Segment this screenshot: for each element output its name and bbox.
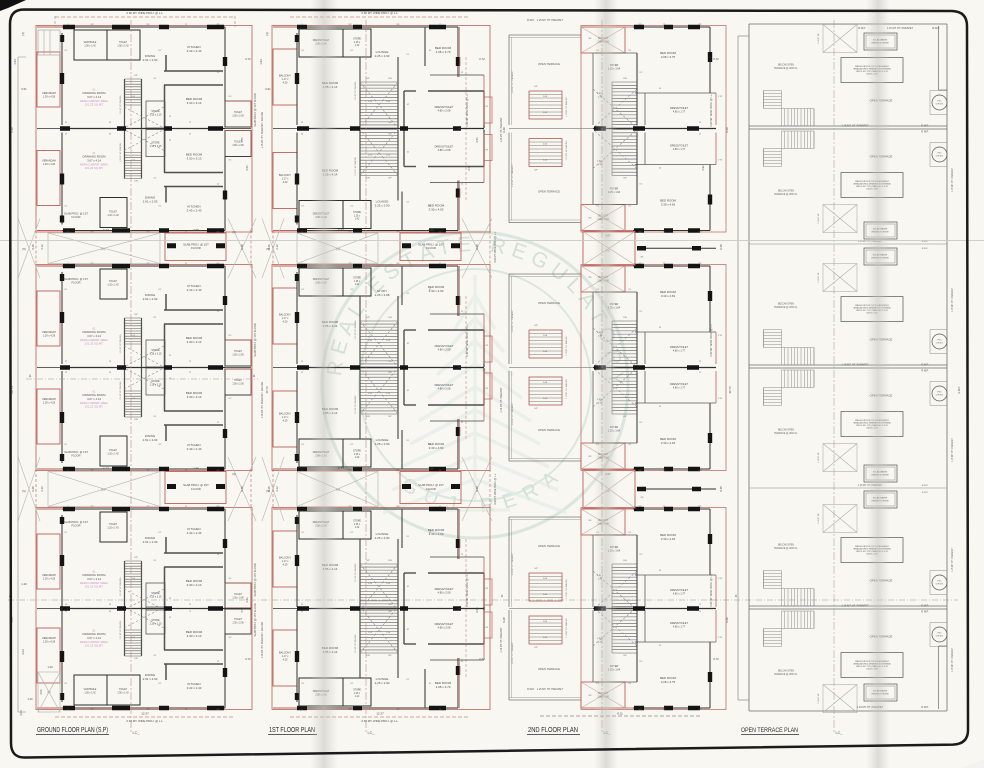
col2 stairs bbox=[360, 81, 398, 83]
svg-text:1.25 x: 1.25 x bbox=[354, 454, 361, 456]
col1 bed room bbox=[164, 323, 223, 325]
col2 unit outer wall bbox=[297, 468, 458, 470]
svg-text:0.72: 0.72 bbox=[245, 57, 251, 61]
svg-text:1.15 MT. HT. RAILING: 1.15 MT. HT. RAILING bbox=[119, 381, 122, 400]
svg-text:DRESS/TOILET: DRESS/TOILET bbox=[435, 622, 454, 626]
svg-text:3.55: 3.55 bbox=[193, 228, 199, 232]
svg-text:9.48: 9.48 bbox=[719, 244, 723, 250]
svg-text:3.30 x 4.63: 3.30 x 4.63 bbox=[429, 208, 444, 212]
col2 dress toilet box bbox=[299, 439, 343, 467]
svg-text:DN: DN bbox=[366, 655, 370, 657]
svg-text:DRESS/TOILET: DRESS/TOILET bbox=[435, 383, 454, 387]
svg-text:OPEN TERRACE: OPEN TERRACE bbox=[538, 428, 560, 432]
col1 right wall bbox=[224, 27, 226, 101]
col1 bottom-left crossed area bbox=[38, 672, 60, 712]
svg-text:OPEN TERRACE: OPEN TERRACE bbox=[538, 544, 560, 548]
svg-text:9.48: 9.48 bbox=[240, 486, 244, 492]
svg-text:5.26: 5.26 bbox=[31, 486, 35, 492]
svg-text:1.15 MT. HT. RAILING: 1.15 MT. HT. RAILING bbox=[354, 320, 357, 339]
svg-text:UP: UP bbox=[134, 75, 138, 77]
svg-text:GROUND FLOOR PLAN (S.P): GROUND FLOOR PLAN (S.P) bbox=[37, 725, 108, 734]
svg-text:DN: DN bbox=[134, 658, 138, 660]
col1 section line A bbox=[26, 378, 258, 380]
svg-text:TERRACE @ 2ND FL.: TERRACE @ 2ND FL. bbox=[774, 673, 798, 676]
svg-text:UP: UP bbox=[366, 560, 370, 562]
svg-text:R.W.P.: R.W.P. bbox=[958, 386, 961, 393]
svg-text:1.29 x 4.26: 1.29 x 4.26 bbox=[43, 578, 56, 581]
svg-text:101.22 SQ.MT.: 101.22 SQ.MT. bbox=[85, 103, 104, 107]
svg-text:9.48: 9.48 bbox=[725, 617, 729, 623]
svg-text:3.30 x 3.13: 3.30 x 3.13 bbox=[187, 101, 202, 105]
svg-text:3.30 x 3.13: 3.30 x 3.13 bbox=[187, 157, 202, 161]
svg-text:4.80 x 2.08: 4.80 x 2.08 bbox=[438, 387, 451, 391]
svg-text:DN: DN bbox=[366, 416, 370, 418]
svg-text:OPEN TERRACE: OPEN TERRACE bbox=[538, 301, 560, 305]
svg-text:(1): (1) bbox=[101, 247, 105, 251]
col3 small stairs left bbox=[529, 376, 562, 378]
col3 core left wall bbox=[636, 371, 638, 443]
col1 verandah bbox=[37, 52, 60, 107]
col1 stairs bbox=[125, 560, 142, 562]
svg-text:V W: V W bbox=[484, 150, 488, 152]
col1 top-left planter bbox=[38, 30, 60, 55]
svg-text:LC_: LC_ bbox=[368, 731, 376, 735]
svg-text:V W: V W bbox=[484, 345, 488, 347]
svg-text:2.25 x 2.90: 2.25 x 2.90 bbox=[375, 681, 390, 685]
svg-text:TERRACE @ 2ND FL.: TERRACE @ 2ND FL. bbox=[774, 193, 798, 196]
svg-text:SLAB PROJ. @ 1ST FLOOR: SLAB PROJ. @ 1ST FLOOR bbox=[253, 323, 257, 357]
svg-text:6.72: 6.72 bbox=[338, 467, 344, 471]
col1 slab proj red box bbox=[165, 233, 226, 261]
svg-text:STORE: STORE bbox=[353, 690, 361, 692]
svg-text:4.08 x 3.75: 4.08 x 3.75 bbox=[661, 55, 676, 59]
svg-text:4.20: 4.20 bbox=[283, 181, 288, 184]
col2 party wall bbox=[297, 608, 484, 610]
svg-text:TOILET: TOILET bbox=[109, 281, 118, 283]
margin cross right col2 bbox=[462, 457, 492, 521]
col1 store bbox=[146, 368, 165, 395]
col3 module boundary bbox=[581, 265, 726, 471]
svg-text:1.15 MT. HT. RAILING: 1.15 MT. HT. RAILING bbox=[354, 81, 357, 100]
svg-text:1.15 MT. HT. RAILING: 1.15 MT. HT. RAILING bbox=[119, 620, 122, 639]
svg-text:DN: DN bbox=[388, 317, 392, 319]
svg-text:STORE: STORE bbox=[353, 212, 361, 214]
col2 bottom dims bbox=[290, 716, 470, 718]
svg-text:R.W.P.: R.W.P. bbox=[921, 364, 928, 367]
col1 kitchen partition bbox=[165, 425, 167, 441]
watermark RERA stamp bbox=[0, 0, 628, 538]
svg-text:1.42: 1.42 bbox=[355, 219, 360, 221]
svg-text:3.51: 3.51 bbox=[240, 137, 244, 143]
svg-text:3.51: 3.51 bbox=[475, 137, 479, 143]
svg-text:1.25 x 2.15: 1.25 x 2.15 bbox=[150, 145, 162, 148]
col1 verandah bbox=[37, 628, 60, 683]
col1 toilet ext bbox=[225, 608, 251, 634]
col2 unit outer wall bbox=[297, 707, 458, 709]
svg-text:0.72: 0.72 bbox=[713, 57, 719, 61]
svg-text:TOILET: TOILET bbox=[109, 212, 118, 214]
col3 top wall right bbox=[633, 707, 710, 709]
svg-text:2.61 x 2.93: 2.61 x 2.93 bbox=[143, 438, 158, 442]
col2 dress toilet right bbox=[404, 572, 416, 574]
svg-text:30.73: 30.73 bbox=[265, 386, 269, 393]
col2 proj dashed vertical bbox=[465, 57, 467, 201]
col3 top wall right bbox=[633, 230, 710, 232]
col4 parapet line bbox=[749, 364, 947, 366]
svg-text:UP: UP bbox=[534, 408, 538, 410]
col1 store bbox=[146, 130, 165, 157]
svg-text:W: W bbox=[109, 134, 111, 136]
svg-text:4.80 x 2.08: 4.80 x 2.08 bbox=[438, 148, 451, 152]
svg-text:V W: V W bbox=[718, 96, 722, 98]
svg-text:FLOOR: FLOOR bbox=[191, 246, 201, 250]
col2 stairs bbox=[360, 606, 398, 608]
svg-text:4.20: 4.20 bbox=[283, 419, 288, 422]
svg-text:FLOOR: FLOOR bbox=[426, 246, 436, 250]
svg-text:DN: DN bbox=[388, 78, 392, 80]
col2 dress toilet right bbox=[404, 166, 416, 168]
col1 kitchen partition bbox=[165, 55, 167, 71]
col2 bed room right bbox=[401, 266, 403, 305]
svg-text:O.H.W.T.: O.H.W.T. bbox=[936, 156, 944, 158]
svg-text:(5): (5) bbox=[22, 247, 25, 251]
svg-text:0.72: 0.72 bbox=[245, 657, 251, 661]
svg-text:0.72: 0.72 bbox=[713, 657, 719, 661]
col3 small stairs left bbox=[529, 138, 562, 140]
col2 balcony bbox=[273, 391, 297, 447]
col2 module red boundary bbox=[272, 508, 490, 710]
col4 outer boundary bbox=[748, 24, 750, 711]
svg-text:TERRACE @ 2ND FL.: TERRACE @ 2ND FL. bbox=[774, 306, 798, 309]
col3 core left wall bbox=[636, 133, 638, 205]
col2 party wall bbox=[297, 128, 484, 130]
col3 gap bedroom wall bbox=[637, 247, 716, 249]
svg-text:3.51: 3.51 bbox=[245, 165, 249, 171]
col4 center line bbox=[833, 20, 835, 733]
svg-text:PVC: PVC bbox=[938, 153, 943, 155]
col2 dress toilet right bbox=[404, 329, 416, 331]
col1 right wall bbox=[224, 157, 226, 231]
svg-text:4.80 x 1.77: 4.80 x 1.77 bbox=[673, 626, 686, 629]
col3 module boundary bbox=[581, 508, 726, 710]
col4 crossed boxes bbox=[823, 264, 857, 292]
col2 dress toilet box bbox=[299, 29, 343, 57]
col2 bed room right bbox=[401, 192, 403, 231]
col3 party wall bbox=[593, 128, 716, 130]
col4 right boundary steps bbox=[938, 26, 940, 90]
col3 foyer bbox=[595, 681, 637, 683]
svg-text:W: W bbox=[109, 611, 111, 613]
col2 dress toilet right bbox=[404, 404, 416, 406]
col3 cut-out box bbox=[581, 443, 625, 469]
svg-text:OPEN TERRACE: OPEN TERRACE bbox=[538, 667, 560, 671]
col1 party wall bbox=[62, 367, 225, 369]
col4 solar water heater boxes bbox=[864, 33, 897, 50]
svg-text:FLOOR: FLOOR bbox=[72, 215, 81, 219]
svg-text:UP: UP bbox=[534, 325, 538, 327]
svg-text:1.15 MT. HT. PARAPET: 1.15 MT. HT. PARAPET bbox=[951, 287, 954, 312]
col2 dress toilet right bbox=[404, 90, 416, 92]
red boundary continuation bbox=[35, 469, 37, 509]
col2 right wall bbox=[457, 658, 459, 708]
col1 verandah bbox=[37, 151, 60, 206]
svg-text:1.50 x 1.42: 1.50 x 1.42 bbox=[84, 45, 96, 47]
svg-text:1.15 MT. HT. RAILING: 1.15 MT. HT. RAILING bbox=[354, 634, 357, 653]
svg-text:PVC: PVC bbox=[938, 101, 943, 103]
svg-text:UP: UP bbox=[534, 86, 538, 88]
svg-text:DN: DN bbox=[134, 181, 138, 183]
svg-text:1.50 x 2.00: 1.50 x 2.00 bbox=[232, 115, 244, 117]
svg-text:1.15 MT. HT.: 1.15 MT. HT. bbox=[818, 693, 820, 704]
margin cross right bbox=[228, 457, 256, 521]
svg-text:UP: UP bbox=[388, 416, 392, 418]
col3 open terrace outline bbox=[508, 610, 510, 700]
col4 stairs bbox=[764, 329, 782, 331]
col1 toilet ext bbox=[225, 131, 251, 157]
svg-text:R.W.P.: R.W.P. bbox=[922, 241, 929, 243]
svg-text:4.08 x 3.79: 4.08 x 3.79 bbox=[436, 685, 451, 689]
svg-text:UP: UP bbox=[134, 557, 138, 559]
col1 store bbox=[146, 101, 165, 128]
section line A lower full width bbox=[8, 599, 958, 601]
svg-text:1.15 MT. HT. PARAPET: 1.15 MT. HT. PARAPET bbox=[951, 547, 954, 572]
col2 right wall bbox=[457, 266, 459, 316]
svg-text:0.40 MT. WIDE PROJ. @ L.L.: 0.40 MT. WIDE PROJ. @ L.L. bbox=[494, 473, 497, 505]
svg-text:3.43 x 2.43: 3.43 x 2.43 bbox=[187, 209, 202, 213]
svg-text:3.30 x 3.13: 3.30 x 3.13 bbox=[187, 634, 202, 638]
svg-text:1.50 x 2.00: 1.50 x 2.00 bbox=[232, 383, 244, 385]
svg-text:1.15 MT. HT.: 1.15 MT. HT. bbox=[818, 213, 820, 224]
svg-text:1.29 x 4.26: 1.29 x 4.26 bbox=[43, 402, 56, 405]
svg-text:1.15 MT. HT. RAILING: 1.15 MT. HT. RAILING bbox=[565, 579, 568, 599]
svg-text:2.61 x 2.93: 2.61 x 2.93 bbox=[143, 200, 158, 204]
col1 kitchen partition bbox=[165, 664, 167, 680]
svg-text:FLOOR: FLOOR bbox=[426, 487, 436, 491]
col1 bed room bbox=[164, 84, 223, 86]
svg-text:(6): (6) bbox=[47, 690, 50, 694]
col3 center line bbox=[601, 20, 603, 733]
svg-text:1.25 x: 1.25 x bbox=[354, 42, 361, 44]
col2 bed room right bbox=[401, 509, 403, 548]
svg-text:101.22 SQ.MT.: 101.22 SQ.MT. bbox=[85, 405, 104, 409]
col1 module red boundary bbox=[36, 508, 252, 710]
svg-text:4.80 x 2.08: 4.80 x 2.08 bbox=[438, 348, 451, 352]
svg-text:STORE: STORE bbox=[353, 278, 361, 280]
svg-text:1.42: 1.42 bbox=[355, 284, 360, 286]
col2 dress toilet box bbox=[299, 201, 343, 229]
svg-text:DN: DN bbox=[366, 178, 370, 180]
svg-text:TOILET: TOILET bbox=[109, 524, 118, 526]
svg-text:1.15 MT. HT. PARAPET: 1.15 MT. HT. PARAPET bbox=[951, 647, 954, 672]
svg-text:1.25 x: 1.25 x bbox=[354, 281, 361, 283]
svg-text:4.20: 4.20 bbox=[283, 320, 288, 323]
svg-text:1.15 MT. HT. RAILING: 1.15 MT. HT. RAILING bbox=[119, 95, 122, 114]
col3 core stairs bbox=[612, 606, 637, 608]
col2 dress toilet right bbox=[404, 643, 416, 645]
col2 bed room right bbox=[424, 27, 426, 66]
svg-text:V W: V W bbox=[484, 627, 488, 629]
col1 kitchen partition bbox=[165, 187, 167, 203]
col3 dress toilet bbox=[635, 574, 716, 576]
svg-text:O.H.W.T.: O.H.W.T. bbox=[936, 584, 944, 586]
svg-text:FLOOR: FLOOR bbox=[72, 454, 81, 458]
svg-text:1.42: 1.42 bbox=[355, 527, 360, 529]
svg-text:3.30 x 4.63: 3.30 x 4.63 bbox=[661, 202, 676, 206]
svg-text:0.40 MT. WIDE PROJ. @ L.L.: 0.40 MT. WIDE PROJ. @ L.L. bbox=[466, 93, 469, 126]
svg-text:3.91: 3.91 bbox=[701, 165, 705, 171]
svg-text:1.29 x 4.26: 1.29 x 4.26 bbox=[43, 641, 56, 644]
col3 foyer bbox=[595, 291, 637, 293]
svg-text:3.04: 3.04 bbox=[40, 689, 43, 694]
col1 stairs bbox=[125, 78, 142, 80]
svg-text:DRESS/TOILET: DRESS/TOILET bbox=[435, 587, 454, 591]
svg-text:9.48: 9.48 bbox=[719, 486, 723, 492]
svg-text:0.60 MT. WIDE PROJ. @ L.L.: 0.60 MT. WIDE PROJ. @ L.L. bbox=[710, 573, 713, 606]
svg-text:(5): (5) bbox=[266, 247, 269, 251]
svg-text:101.22 SQ.MT.: 101.22 SQ.MT. bbox=[85, 644, 104, 648]
svg-text:(1): (1) bbox=[101, 488, 105, 492]
svg-text:1.15 MT. HT. PARAPET: 1.15 MT. HT. PARAPET bbox=[841, 363, 869, 367]
svg-text:2.61 x 2.93: 2.61 x 2.93 bbox=[143, 297, 158, 301]
svg-text:V W: V W bbox=[718, 578, 722, 580]
svg-text:8.11: 8.11 bbox=[617, 712, 623, 716]
svg-text:R.W.P.: R.W.P. bbox=[921, 605, 928, 608]
svg-text:UP: UP bbox=[388, 178, 392, 180]
col2 right wall bbox=[457, 181, 459, 231]
col1 bed room bbox=[164, 566, 223, 568]
col4 left bulge boundary bbox=[737, 36, 739, 700]
svg-text:6.72: 6.72 bbox=[103, 228, 109, 232]
svg-text:PVC: PVC bbox=[938, 633, 943, 635]
svg-text:101.22 SQ.MT.: 101.22 SQ.MT. bbox=[85, 342, 104, 346]
svg-text:3.51: 3.51 bbox=[475, 607, 479, 613]
svg-text:O.H.W.T.: O.H.W.T. bbox=[936, 636, 944, 638]
col3 foyer bbox=[595, 534, 637, 536]
svg-text:VESTIBULE: VESTIBULE bbox=[84, 689, 97, 691]
svg-text:4.20: 4.20 bbox=[283, 658, 288, 661]
svg-text:3.30 x 3.13: 3.30 x 3.13 bbox=[187, 395, 202, 399]
col4 stairs bbox=[764, 570, 782, 572]
svg-text:3.04: 3.04 bbox=[21, 649, 25, 655]
svg-text:R.W.P.: R.W.P. bbox=[922, 248, 929, 250]
svg-text:(3): (3) bbox=[232, 472, 235, 476]
col2 store box bbox=[343, 201, 371, 229]
col2 balcony bbox=[273, 630, 297, 686]
col1 verandah bbox=[37, 534, 60, 589]
svg-text:3.43 x 2.43: 3.43 x 2.43 bbox=[187, 686, 202, 690]
col2 unit outer wall bbox=[297, 265, 458, 267]
col4 section joints bbox=[749, 243, 947, 245]
svg-text:R.W.P.: R.W.P. bbox=[921, 706, 928, 709]
svg-text:1.20: 1.20 bbox=[27, 697, 33, 701]
svg-text:1.25 x 2.15: 1.25 x 2.15 bbox=[150, 114, 162, 117]
svg-text:1.15 MT. HT. PARAPET: 1.15 MT. HT. PARAPET bbox=[841, 124, 869, 128]
svg-text:1.15 MT. HT. RAILING: 1.15 MT. HT. RAILING bbox=[565, 140, 568, 160]
svg-text:1ST FLOOR PLAN: 1ST FLOOR PLAN bbox=[269, 725, 315, 734]
svg-text:UP: UP bbox=[534, 568, 538, 570]
svg-text:TOILET: TOILET bbox=[119, 42, 128, 44]
svg-text:1.15 MT. HT. PARAPET: 1.15 MT. HT. PARAPET bbox=[511, 70, 514, 94]
margin cross right col2 bbox=[462, 219, 492, 279]
col1 verandah bbox=[37, 389, 60, 444]
svg-text:101.22 SQ.MT.: 101.22 SQ.MT. bbox=[85, 585, 104, 589]
svg-text:1.15 MT. HT. RAILING: 1.15 MT. HT. RAILING bbox=[354, 563, 357, 582]
col1 bed room bbox=[164, 410, 223, 412]
svg-text:SLAB PROJ. @ 1ST: SLAB PROJ. @ 1ST bbox=[64, 212, 88, 216]
svg-text:R.W.P.: R.W.P. bbox=[921, 125, 928, 128]
svg-text:1.25 x 2.15: 1.25 x 2.15 bbox=[150, 623, 162, 626]
svg-text:1.25 x: 1.25 x bbox=[354, 215, 361, 217]
svg-text:TOILET: TOILET bbox=[234, 594, 243, 596]
svg-text:UP: UP bbox=[366, 78, 370, 80]
col1 vestibule and toilet bbox=[74, 675, 107, 705]
col3 party wall bbox=[593, 608, 716, 610]
svg-text:9.48: 9.48 bbox=[240, 244, 244, 250]
svg-text:TOILET: TOILET bbox=[234, 380, 243, 382]
svg-text:12.37: 12.37 bbox=[141, 712, 149, 716]
svg-text:2.12: 2.12 bbox=[275, 244, 279, 250]
margin cross right bbox=[228, 219, 256, 279]
col1 unit outer wall bbox=[62, 230, 225, 232]
svg-text:(4): (4) bbox=[265, 32, 269, 35]
svg-text:SLAB PROJ. @ 1ST FLOOR: SLAB PROJ. @ 1ST FLOOR bbox=[253, 563, 257, 597]
svg-text:1.15 MT. HT. PARAPET: 1.15 MT. HT. PARAPET bbox=[500, 387, 503, 413]
svg-text:3.30 x 4.63: 3.30 x 4.63 bbox=[661, 294, 676, 298]
svg-text:4.80 x 2.08: 4.80 x 2.08 bbox=[438, 626, 451, 630]
svg-text:V W: V W bbox=[718, 398, 722, 400]
col1 right wall bbox=[224, 509, 226, 583]
svg-text:UP: UP bbox=[388, 655, 392, 657]
col1 toilet ext bbox=[225, 369, 251, 395]
svg-text:1.29 x 4.26: 1.29 x 4.26 bbox=[43, 96, 56, 99]
col3 open terrace outline bbox=[508, 517, 510, 607]
col4 crossed boxes bbox=[823, 25, 857, 53]
svg-text:1.32 x 1.42: 1.32 x 1.42 bbox=[107, 284, 119, 286]
col2 store box bbox=[343, 678, 371, 706]
svg-text:1.15 MT. HT. PARAPET: 1.15 MT. HT. PARAPET bbox=[511, 309, 514, 333]
svg-text:1.32 x 1.42: 1.32 x 1.42 bbox=[107, 215, 119, 217]
col1 left dimension lines bbox=[17, 57, 19, 712]
svg-text:UP: UP bbox=[134, 314, 138, 316]
svg-text:LC_: LC_ bbox=[836, 731, 844, 735]
margin cross left col2 bbox=[262, 219, 284, 279]
red boundary continuation col2 bbox=[272, 231, 274, 267]
svg-text:W: W bbox=[109, 361, 111, 363]
svg-text:1.94: 1.94 bbox=[259, 59, 263, 65]
svg-text:1.15 MT. HT. RAILING: 1.15 MT. HT. RAILING bbox=[565, 618, 568, 638]
margin cross left bbox=[18, 457, 40, 521]
col1 store bbox=[146, 607, 165, 634]
col3 core stairs bbox=[612, 563, 637, 565]
svg-text:UP: UP bbox=[534, 170, 538, 172]
svg-text:1.15 MT. HT.: 1.15 MT. HT. bbox=[818, 272, 820, 283]
svg-text:0.72: 0.72 bbox=[479, 57, 485, 61]
col3 core stairs bbox=[612, 320, 637, 322]
col1 module red boundary bbox=[36, 265, 252, 471]
svg-text:STORE: STORE bbox=[353, 451, 361, 453]
svg-text:1.15 MT. HT. PARAPET: 1.15 MT. HT. PARAPET bbox=[951, 167, 954, 192]
svg-text:4.20: 4.20 bbox=[283, 81, 288, 84]
svg-text:1.42: 1.42 bbox=[355, 45, 360, 47]
svg-text:3.55: 3.55 bbox=[428, 467, 434, 471]
col1 verandah bbox=[37, 291, 60, 346]
col3 foyer bbox=[595, 204, 637, 206]
margin cross left bbox=[18, 219, 40, 279]
svg-text:FLOOR: FLOOR bbox=[191, 487, 201, 491]
svg-text:0.40 MT. WIDE PROJ. @ L.L.: 0.40 MT. WIDE PROJ. @ L.L. bbox=[466, 323, 469, 356]
col2 stairs bbox=[360, 563, 398, 565]
col3 cut-out box bbox=[581, 266, 625, 292]
